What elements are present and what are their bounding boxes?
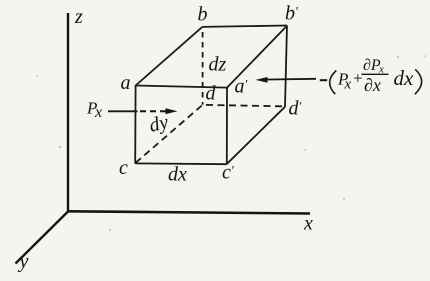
svg-text:a: a [121, 72, 131, 94]
svg-text:b: b [198, 4, 208, 26]
svg-text:c: c [119, 157, 128, 179]
svg-text:x: x [303, 213, 313, 235]
svg-text:dx: dx [168, 164, 187, 186]
svg-text:∂x: ∂x [364, 75, 381, 95]
svg-text:dx: dx [394, 66, 415, 90]
svg-text:x: x [94, 104, 102, 121]
svg-text:y: y [18, 251, 29, 273]
svg-text:d: d [206, 83, 217, 105]
svg-text:dz: dz [209, 54, 227, 76]
svg-text:x: x [344, 77, 352, 93]
svg-text:+: + [352, 69, 363, 88]
svg-text:z: z [74, 6, 83, 28]
